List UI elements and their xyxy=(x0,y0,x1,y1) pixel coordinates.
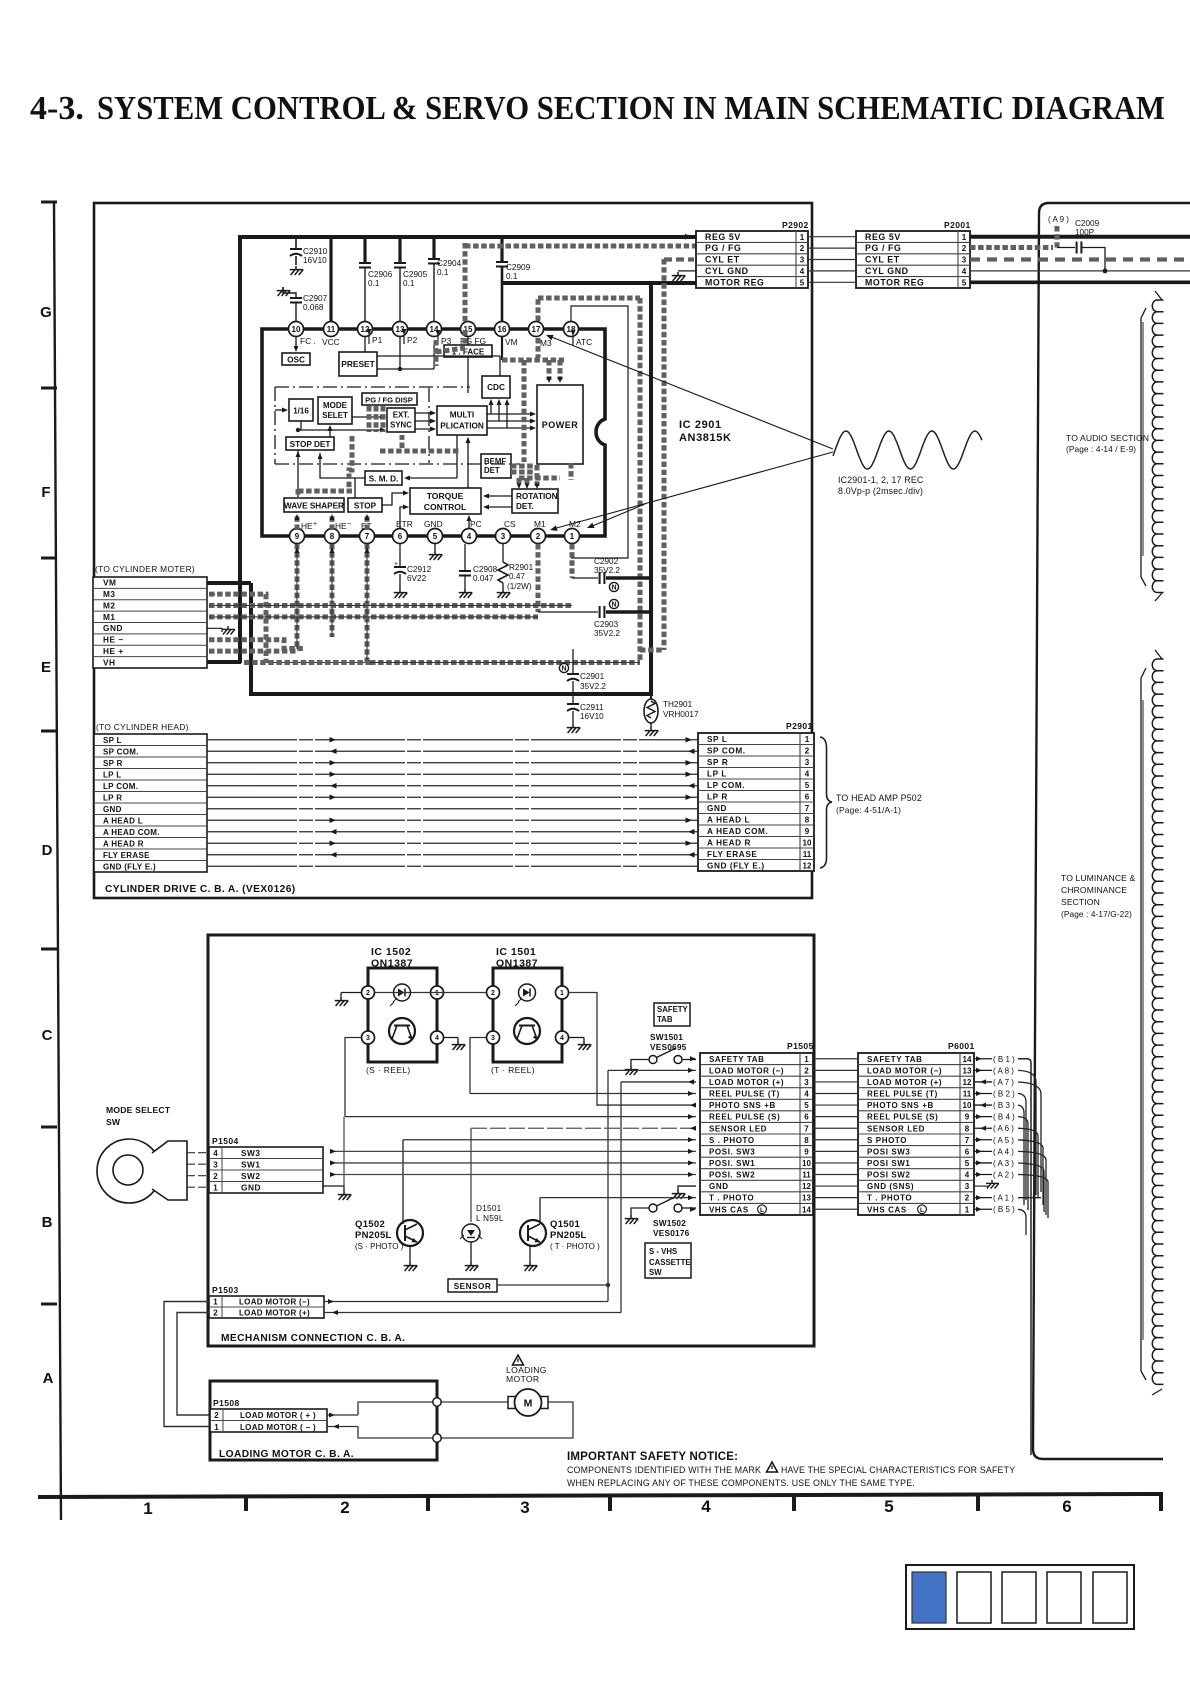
ground below R2901 xyxy=(497,589,511,598)
wire EXT SYNC to MULTIPLICATION xyxy=(415,411,436,432)
svg-text:10: 10 xyxy=(802,1159,811,1168)
wire VCC pin11 from top bus xyxy=(329,238,332,322)
svg-text:8: 8 xyxy=(965,1124,970,1133)
wire pin10 to OSC xyxy=(294,337,299,352)
block WAVE SHAPER xyxy=(284,498,344,512)
svg-text:4: 4 xyxy=(804,1090,809,1099)
svg-text:TO LUMINANCE &: TO LUMINANCE & xyxy=(1061,873,1135,883)
wire LOAD MOTOR + to P1505 xyxy=(621,1079,696,1312)
svg-text:16V10: 16V10 xyxy=(580,712,604,721)
IC2901 pin 1 xyxy=(565,529,580,544)
svg-text:7: 7 xyxy=(365,532,370,541)
grid row label F xyxy=(41,484,50,501)
polarity mark N C2901 xyxy=(559,663,568,672)
svg-text:( B 3 ): ( B 3 ) xyxy=(993,1101,1015,1110)
photo diode D1501 LN59L xyxy=(460,1203,504,1262)
grid row label D xyxy=(42,842,53,859)
block PRESET xyxy=(339,352,377,376)
svg-text:5: 5 xyxy=(962,278,967,287)
wire STOP DET to MODE SELET xyxy=(328,425,333,437)
svg-text:SP R: SP R xyxy=(707,758,728,767)
svg-text:0.047: 0.047 xyxy=(473,574,494,583)
svg-text:2: 2 xyxy=(214,1411,219,1420)
svg-text:11: 11 xyxy=(803,850,812,859)
svg-text:LP L: LP L xyxy=(707,769,727,778)
motor M1501 xyxy=(508,1389,548,1416)
svg-text:(S · PHOTO ): (S · PHOTO ) xyxy=(355,1242,404,1251)
svg-text:1: 1 xyxy=(435,990,439,997)
svg-text:8.0Vp-p (2msec./div): 8.0Vp-p (2msec./div) xyxy=(838,486,923,496)
wire speckled staircase to WAVE SHAPER xyxy=(298,435,460,498)
junction on loading frame bottom wire xyxy=(433,1434,441,1442)
svg-text:( B 2 ): ( B 2 ) xyxy=(993,1090,1015,1099)
mechanism connection C.B.A. board frame xyxy=(208,935,814,1346)
svg-text:2: 2 xyxy=(804,1066,809,1075)
svg-text:A HEAD R: A HEAD R xyxy=(707,838,751,847)
block MULTI PLICATION xyxy=(437,406,487,435)
wire IC1502 pin3 reel pulse S xyxy=(345,1038,361,1117)
svg-text:TH2901: TH2901 xyxy=(663,700,693,709)
svg-text:0.068: 0.068 xyxy=(303,303,324,312)
board section label LOADING MOTOR C.B.A. xyxy=(219,1449,354,1460)
svg-text:SP COM.: SP COM. xyxy=(707,746,746,755)
svg-text:M2: M2 xyxy=(103,600,116,610)
svg-text:HE: HE xyxy=(301,521,313,531)
svg-text:VM: VM xyxy=(505,337,518,347)
IC2901 pin 15 xyxy=(461,322,476,337)
block OSC xyxy=(282,353,310,365)
ground left of IC1502 pin2 xyxy=(335,993,361,1007)
svg-text:M1: M1 xyxy=(103,612,116,622)
svg-text:6V22: 6V22 xyxy=(407,574,427,583)
IC2901 pin 8 xyxy=(325,529,340,544)
svg-text:14: 14 xyxy=(802,1205,811,1214)
wire speckled CYL ET into P2902 xyxy=(664,257,694,261)
svg-text:0.47: 0.47 xyxy=(509,572,525,581)
svg-text:(Page : 4-14 / E-9): (Page : 4-14 / E-9) xyxy=(1066,444,1136,454)
svg-text:12: 12 xyxy=(803,861,812,870)
block S.M.D. xyxy=(365,471,402,485)
svg-text:COMPONENTS IDENTIFIED WITH THE: COMPONENTS IDENTIFIED WITH THE MARK xyxy=(567,1465,761,1475)
svg-text:C2911: C2911 xyxy=(580,703,604,712)
svg-text:WAVE SHAPER: WAVE SHAPER xyxy=(284,502,344,511)
svg-text:FC .: FC . xyxy=(300,336,316,346)
svg-text:CONTROL: CONTROL xyxy=(424,502,467,512)
svg-text:LP COM.: LP COM. xyxy=(707,781,745,790)
board section label MECHANISM CONNECTION C.B.A. xyxy=(221,1333,405,1344)
important safety notice text xyxy=(567,1451,1015,1488)
svg-text:CYL GND: CYL GND xyxy=(705,266,749,276)
svg-text:3: 3 xyxy=(213,1160,218,1169)
block STOP xyxy=(348,498,382,512)
pin label M3 xyxy=(540,338,552,348)
wire MULTI to S.M.D. xyxy=(404,435,457,481)
svg-text:0.1: 0.1 xyxy=(437,268,449,277)
wire pin16 VM down xyxy=(501,337,503,360)
svg-text:2: 2 xyxy=(965,1194,970,1203)
svg-text:POSI. SW2: POSI. SW2 xyxy=(709,1171,755,1180)
svg-text:VES0176: VES0176 xyxy=(653,1228,690,1238)
cylinder drive C.B.A. board frame xyxy=(94,203,812,898)
svg-text:3: 3 xyxy=(962,256,967,265)
svg-text:6: 6 xyxy=(804,1113,809,1122)
svg-text:P6001: P6001 xyxy=(948,1041,975,1051)
pin label P2 xyxy=(402,329,418,345)
svg-text:CYL ET: CYL ET xyxy=(865,255,900,265)
svg-text:4: 4 xyxy=(965,1171,970,1180)
polarity mark N C2903 xyxy=(609,599,618,608)
svg-text:3: 3 xyxy=(805,758,810,767)
svg-text:5: 5 xyxy=(965,1159,970,1168)
block EXT. SYNC xyxy=(387,408,415,432)
IC2901 pin 14 xyxy=(427,322,442,337)
label TO LUMINANCE CHROMINANCE SECTION xyxy=(1061,873,1135,919)
label LOADING MOTOR xyxy=(506,1365,547,1384)
pin label P1 xyxy=(367,329,383,345)
svg-text:12: 12 xyxy=(802,1182,811,1191)
wires mode select to P1504 xyxy=(187,1153,209,1188)
svg-text:(TO CYLINDER MOTER): (TO CYLINDER MOTER) xyxy=(95,564,195,574)
svg-text:P2001: P2001 xyxy=(944,220,971,230)
svg-text:SAFETY TAB: SAFETY TAB xyxy=(867,1055,922,1064)
board section label CYLINDER DRIVE C.B.A. xyxy=(105,884,296,895)
svg-text:2: 2 xyxy=(536,532,541,541)
svg-text:POSI SW1: POSI SW1 xyxy=(867,1159,910,1168)
svg-text:5: 5 xyxy=(805,781,810,790)
svg-text:POSI SW2: POSI SW2 xyxy=(867,1171,910,1180)
ground below C2908 xyxy=(459,589,473,598)
label TO CYLINDER MOTER xyxy=(95,564,195,574)
grid column label 1 xyxy=(143,1499,152,1518)
block MODE SELET xyxy=(318,397,352,424)
svg-text:D: D xyxy=(42,842,53,859)
svg-text:N: N xyxy=(611,585,616,592)
wire P1504 GND drop xyxy=(323,1117,344,1191)
svg-text:1: 1 xyxy=(804,1055,809,1064)
svg-text:PLICATION: PLICATION xyxy=(440,422,484,431)
svg-text:E: E xyxy=(41,659,51,676)
wire speckled HE pins columns xyxy=(295,544,370,663)
svg-text:2: 2 xyxy=(805,746,810,755)
IC2901 pin 3 xyxy=(496,529,511,544)
svg-text:1: 1 xyxy=(962,233,967,242)
svg-text:1: 1 xyxy=(805,735,810,744)
svg-text:PN205L: PN205L xyxy=(550,1230,587,1241)
ground below Q1501 xyxy=(524,1262,538,1271)
svg-text:PHOTO SNS +B: PHOTO SNS +B xyxy=(867,1101,934,1110)
svg-text:1: 1 xyxy=(213,1183,218,1192)
ground below TH2901 xyxy=(645,727,659,736)
svg-text:C2906: C2906 xyxy=(368,270,393,279)
svg-text:EXT.: EXT. xyxy=(393,411,409,420)
svg-text:CYL GND: CYL GND xyxy=(865,266,909,276)
capacitor C2912 xyxy=(394,544,432,589)
svg-text:FLY ERASE: FLY ERASE xyxy=(103,851,150,860)
ground at P1505 GND xyxy=(672,1186,696,1199)
wire speckled HE+ row xyxy=(209,649,297,654)
wire STOP DET to S.M.D. xyxy=(318,453,366,478)
svg-text:P1504: P1504 xyxy=(212,1136,239,1146)
svg-text:3: 3 xyxy=(804,1078,809,1087)
IC op-amp block IC2901 outline xyxy=(262,329,605,536)
wire IC1501 pin3 reel pulse T xyxy=(470,1038,486,1094)
resistor R2901 xyxy=(498,544,534,591)
svg-text:GND (FLY E.): GND (FLY E.) xyxy=(103,862,156,871)
pin label ATC xyxy=(571,330,593,347)
wire speckled HE- row xyxy=(209,640,303,649)
svg-text:S . PHOTO: S . PHOTO xyxy=(709,1136,755,1145)
svg-text:11: 11 xyxy=(802,1171,811,1180)
connector P1505 xyxy=(700,1041,814,1215)
svg-text:11: 11 xyxy=(327,325,336,334)
svg-text:M3: M3 xyxy=(540,338,552,348)
connector P1508 xyxy=(210,1398,327,1432)
transistor Q1501 PN205L xyxy=(520,1219,600,1262)
svg-text:MOTOR REG: MOTOR REG xyxy=(865,277,925,287)
waveform label xyxy=(838,475,924,496)
svg-text:4: 4 xyxy=(805,769,810,778)
capacitor C2903 xyxy=(538,606,651,638)
svg-text:0.1: 0.1 xyxy=(403,279,415,288)
svg-text:SP COM.: SP COM. xyxy=(103,747,139,756)
svg-text:C2912: C2912 xyxy=(407,565,432,574)
wire PG/FG right of P2001 speckled xyxy=(970,245,1053,250)
svg-text:1: 1 xyxy=(560,990,564,997)
svg-text:( A 9 ): ( A 9 ) xyxy=(1048,215,1069,224)
svg-text:9: 9 xyxy=(965,1113,970,1122)
svg-text:1: 1 xyxy=(213,1298,218,1307)
block S-VHS CASSETTE SW xyxy=(645,1243,691,1278)
board edge connector comb upper xyxy=(1141,291,1164,601)
svg-text:A HEAD L: A HEAD L xyxy=(103,816,143,825)
svg-text:4: 4 xyxy=(213,1149,218,1158)
block SAFETY TAB xyxy=(654,1003,690,1026)
svg-text:TORQUE: TORQUE xyxy=(427,491,464,501)
wire REG5V arrow into P2902 xyxy=(685,234,692,240)
svg-text:GND (FLY E.): GND (FLY E.) xyxy=(707,861,765,870)
svg-text:1: 1 xyxy=(214,1423,219,1432)
svg-text:M1: M1 xyxy=(534,519,546,529)
wire IC1501 pin1 to PHOTO SNS xyxy=(568,993,597,1106)
wire speckled pin14 P3 bend xyxy=(436,340,465,366)
svg-text:3: 3 xyxy=(501,532,506,541)
wire REG 5V bus (thick top) xyxy=(207,235,697,663)
ground below D1501 xyxy=(465,1262,479,1271)
label TO CYLINDER HEAD xyxy=(96,722,189,732)
svg-text:LOAD MOTOR (−): LOAD MOTOR (−) xyxy=(239,1298,310,1307)
svg-text:DET.: DET. xyxy=(516,502,534,511)
svg-text:GND: GND xyxy=(241,1182,261,1192)
svg-text:SELET: SELET xyxy=(322,411,348,420)
wire P1508 minus to motor xyxy=(327,1402,573,1438)
svg-text:MODE SELECT: MODE SELECT xyxy=(106,1105,171,1115)
svg-text:8: 8 xyxy=(804,1136,809,1145)
svg-text:CDC: CDC xyxy=(487,383,505,392)
svg-text:( B 1 ): ( B 1 ) xyxy=(993,1055,1015,1064)
pin label FC xyxy=(300,336,316,346)
connector P1503 xyxy=(209,1285,324,1318)
svg-text:REEL PULSE (T): REEL PULSE (T) xyxy=(709,1090,780,1099)
grid column label 4 xyxy=(701,1497,711,1516)
svg-text:0.1: 0.1 xyxy=(506,272,518,281)
ground at IC1502 pin4 xyxy=(444,1038,465,1051)
block CDC xyxy=(482,376,510,398)
svg-text:1/16: 1/16 xyxy=(293,407,309,416)
grid column label 5 xyxy=(884,1497,893,1516)
IC2901 part number label xyxy=(679,419,732,444)
svg-text:AN3815K: AN3815K xyxy=(679,432,732,444)
capacitor C2911 xyxy=(567,694,604,724)
svg-text:( A 3 ): ( A 3 ) xyxy=(993,1159,1014,1168)
ground at SW1501 xyxy=(625,1066,639,1075)
connector P6001 xyxy=(858,1041,975,1215)
connector P2901 xyxy=(698,721,814,871)
svg-text:1: 1 xyxy=(143,1499,152,1518)
pin label VM xyxy=(505,337,518,347)
svg-text:4: 4 xyxy=(701,1497,711,1516)
svg-text:REG 5V: REG 5V xyxy=(705,232,741,242)
svg-text:9: 9 xyxy=(804,1147,809,1156)
wires tags to luminance bundle xyxy=(1018,1059,1048,1455)
brace to head amp xyxy=(820,737,832,868)
svg-text:(Page : 4-17/G-22): (Page : 4-17/G-22) xyxy=(1061,909,1132,919)
svg-text:+: + xyxy=(313,521,317,528)
waveform oscillogram xyxy=(833,431,982,469)
svg-text:TAB: TAB xyxy=(657,1015,673,1024)
svg-text:A HEAD COM.: A HEAD COM. xyxy=(103,828,160,837)
grid row label C xyxy=(42,1027,53,1044)
svg-text:4-3.: 4-3. xyxy=(30,90,84,127)
svg-text:GND: GND xyxy=(424,519,443,529)
IC2901 pin 4 xyxy=(462,529,477,544)
svg-text:( A 2 ): ( A 2 ) xyxy=(993,1171,1014,1180)
wire speckled BEMF to POWER xyxy=(511,466,535,472)
wire PHOTO SNS +B to P1505 xyxy=(597,1103,696,1108)
svg-text:14: 14 xyxy=(963,1055,972,1064)
svg-text:T . PHOTO: T . PHOTO xyxy=(709,1194,754,1203)
wire T.PHOTO to P1505 xyxy=(540,1195,696,1220)
title text xyxy=(30,90,1165,127)
svg-text:LP COM.: LP COM. xyxy=(103,782,138,791)
bottom grid ruler xyxy=(38,1494,1163,1511)
svg-text:R2901: R2901 xyxy=(509,563,534,572)
wire POSI SW1 to P1505 xyxy=(330,1160,696,1165)
svg-text:LOAD MOTOR ( + ): LOAD MOTOR ( + ) xyxy=(240,1411,316,1420)
svg-text:C2908: C2908 xyxy=(473,565,498,574)
svg-text:3: 3 xyxy=(965,1182,970,1191)
grid row label E xyxy=(41,659,51,676)
svg-text:C2905: C2905 xyxy=(403,270,428,279)
svg-text:VHS CAS: VHS CAS xyxy=(709,1205,749,1214)
svg-text:MODE: MODE xyxy=(323,401,348,410)
optocoupler IC1501 ON1387 xyxy=(487,946,569,1075)
wires P2902 to P2001 xyxy=(808,237,856,283)
block ROTATION DET. xyxy=(512,489,558,513)
svg-text:( A 4 ): ( A 4 ) xyxy=(993,1147,1014,1156)
wire speckled HE pins to WAVE SHAPER and STOP xyxy=(295,514,370,530)
pin label M2 xyxy=(569,519,581,529)
svg-text:LOAD MOTOR ( − ): LOAD MOTOR ( − ) xyxy=(240,1423,316,1432)
svg-text:PG / FG DISP: PG / FG DISP xyxy=(365,396,413,405)
svg-text:( A 5 ): ( A 5 ) xyxy=(993,1136,1014,1145)
connector P1504 xyxy=(209,1136,323,1193)
IC2901 pin 10 xyxy=(289,322,304,337)
svg-text:A HEAD R: A HEAD R xyxy=(103,839,144,848)
wire MOTOR REG bus xyxy=(207,283,697,696)
node (A 9) stub with C2009 xyxy=(1048,215,1107,273)
svg-text:N: N xyxy=(561,666,566,673)
label TO HEAD AMP P502 xyxy=(836,793,922,815)
svg-text:35V2.2: 35V2.2 xyxy=(580,682,606,691)
IC2901 pin 17 xyxy=(529,322,544,337)
pin label GND xyxy=(424,519,443,529)
svg-text:ON1387: ON1387 xyxy=(496,958,538,970)
svg-text:6: 6 xyxy=(398,532,403,541)
wire S.PHOTO to P1505 xyxy=(403,1137,696,1220)
grid column label 3 xyxy=(520,1498,529,1517)
wire ATC M2 loop xyxy=(571,306,628,558)
svg-text:A HEAD L: A HEAD L xyxy=(707,815,750,824)
block 1.FACE xyxy=(444,345,492,357)
pin label ET xyxy=(361,521,372,531)
wires P1503 to P1505 bus xyxy=(324,1299,621,1315)
svg-text:0.1: 0.1 xyxy=(368,279,380,288)
wire speckled PG/FG trace top xyxy=(465,243,696,345)
svg-text:SP L: SP L xyxy=(707,735,727,744)
svg-text:VM: VM xyxy=(103,578,116,588)
svg-text:C2902: C2902 xyxy=(594,557,619,566)
svg-text:3: 3 xyxy=(800,256,805,265)
svg-text:T . PHOTO: T . PHOTO xyxy=(867,1194,912,1203)
svg-text:SENSOR LED: SENSOR LED xyxy=(867,1124,925,1133)
svg-text:C: C xyxy=(42,1027,53,1044)
wire pin12 P1 to PRESET xyxy=(364,337,366,352)
svg-text:F: F xyxy=(41,484,50,501)
svg-text:C2903: C2903 xyxy=(594,620,619,629)
capacitor C2904 xyxy=(428,237,462,322)
main board right frame xyxy=(1033,203,1190,1459)
connector to cylinder head xyxy=(94,734,207,872)
grid column label 6 xyxy=(1062,1497,1071,1516)
wire ROTATION DET to TORQUE xyxy=(483,494,512,510)
svg-text:LP R: LP R xyxy=(103,793,122,802)
wire TORQUE to MULTI xyxy=(466,437,471,488)
svg-text:S PHOTO: S PHOTO xyxy=(867,1136,907,1145)
capacitor C2908 xyxy=(459,544,498,589)
svg-text:−: − xyxy=(347,521,351,528)
svg-text:4: 4 xyxy=(560,1035,564,1042)
wire speckled M3 row xyxy=(209,592,266,663)
svg-text:PG / FG: PG / FG xyxy=(705,243,741,253)
svg-text:(TO CYLINDER HEAD): (TO CYLINDER HEAD) xyxy=(96,722,189,732)
svg-text:MOTOR REG: MOTOR REG xyxy=(705,277,765,287)
svg-text:CYLINDER DRIVE C. B. A. (VEX: CYLINDER DRIVE C. B. A. (VEX0126) xyxy=(105,884,296,895)
pin label VCC xyxy=(322,337,340,347)
svg-text:2: 2 xyxy=(213,1172,218,1181)
dash-dot internal boundary xyxy=(275,387,520,464)
wires P1505 to P6001 xyxy=(813,1059,858,1209)
wire SENSOR LED to P1505 xyxy=(471,1126,696,1222)
svg-text:N: N xyxy=(611,602,616,609)
svg-text:(T · REEL): (T · REEL) xyxy=(491,1065,535,1075)
svg-text:+: + xyxy=(394,561,398,568)
svg-text:SENSOR: SENSOR xyxy=(454,1282,492,1291)
svg-text:7: 7 xyxy=(804,1124,809,1133)
svg-text:(1/2W): (1/2W) xyxy=(507,582,532,591)
svg-text:HE: HE xyxy=(335,521,347,531)
svg-text:SW2: SW2 xyxy=(241,1171,260,1181)
svg-text:REEL PULSE (S): REEL PULSE (S) xyxy=(709,1113,780,1122)
